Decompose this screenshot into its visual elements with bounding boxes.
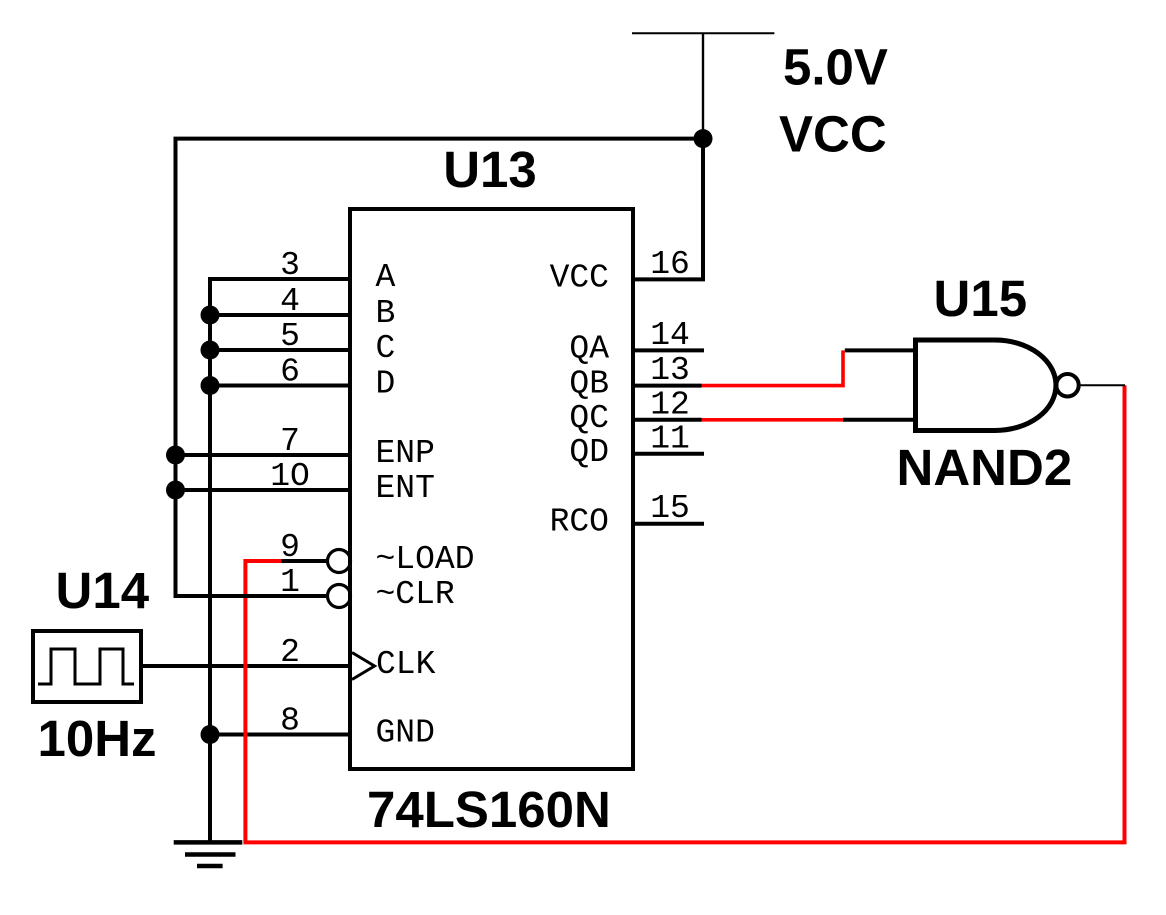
clock source U14 box — [33, 631, 141, 702]
node junction GND — [201, 725, 220, 744]
wire pin13 QB black stub — [633, 384, 702, 388]
wire pin11 QD stub — [633, 452, 704, 456]
node junction C — [201, 341, 220, 360]
svg-text:15: 15 — [650, 490, 690, 527]
svg-text:QA: QA — [569, 330, 609, 367]
svg-text:A: A — [376, 259, 396, 296]
wire pin8 GND stub — [210, 733, 350, 737]
svg-text:1O: 1O — [270, 458, 310, 495]
svg-text:6: 6 — [280, 354, 300, 391]
svg-text:3: 3 — [280, 247, 300, 284]
svg-text:5.0V: 5.0V — [783, 38, 888, 95]
pin1 inversion bubble ~CLR — [328, 585, 351, 608]
svg-text:C: C — [376, 330, 396, 367]
ground symbol — [174, 842, 243, 866]
node junction ENT — [166, 481, 185, 500]
svg-text:ENT: ENT — [376, 470, 435, 507]
svg-text:ENP: ENP — [376, 435, 435, 472]
svg-text:11: 11 — [650, 420, 690, 457]
svg-text:VCC: VCC — [779, 105, 887, 162]
svg-text:GND: GND — [376, 715, 435, 752]
svg-text:74LS160N: 74LS160N — [367, 781, 611, 838]
svg-text:U14: U14 — [56, 562, 150, 619]
wire pin1 ~CLR stub — [174, 594, 329, 598]
wire pin2 CLK — [141, 664, 350, 668]
node junction D — [201, 376, 220, 395]
svg-text:QD: QD — [569, 434, 609, 471]
svg-text:14: 14 — [650, 317, 690, 354]
svg-text:2: 2 — [280, 634, 300, 671]
svg-text:13: 13 — [650, 352, 690, 389]
pin9 inversion bubble ~LOAD — [328, 550, 351, 573]
svg-text:1: 1 — [280, 564, 300, 601]
svg-text:CLK: CLK — [376, 646, 436, 683]
wire pin4 B stub — [210, 313, 350, 317]
svg-text:7: 7 — [280, 423, 300, 460]
IC U13 body — [350, 209, 633, 769]
svg-text:5: 5 — [280, 318, 300, 355]
power symbol VCC bar — [632, 32, 774, 34]
svg-text:12: 12 — [650, 386, 690, 423]
wire NAND input B black segment — [843, 418, 916, 422]
svg-text:D: D — [376, 366, 396, 403]
svg-text:16: 16 — [650, 246, 690, 283]
wire NAND output — [1079, 384, 1125, 386]
svg-text:RCO: RCO — [550, 504, 609, 541]
node VCC junction — [694, 129, 713, 148]
wire pin16 to VCC junction — [633, 139, 703, 280]
wire QB red to NAND input A — [702, 350, 844, 385]
clock source square wave — [38, 649, 134, 684]
svg-text:U13: U13 — [443, 141, 537, 198]
svg-text:~LOAD: ~LOAD — [376, 541, 475, 578]
wire GND rail: pin3 stub corner down to ground — [210, 279, 350, 842]
wire pin12 QC black stub — [633, 418, 702, 422]
wire pin15 RCO stub — [633, 522, 704, 526]
NAND gate output bubble — [1056, 374, 1078, 396]
svg-text:U15: U15 — [934, 270, 1028, 327]
wire pin14 QA stub — [633, 348, 704, 352]
svg-text:VCC: VCC — [550, 259, 609, 296]
NAND gate U15 body — [916, 340, 1056, 431]
svg-text:~CLR: ~CLR — [376, 576, 455, 613]
svg-text:B: B — [376, 295, 396, 332]
svg-text:9: 9 — [280, 529, 300, 566]
svg-text:10Hz: 10Hz — [38, 710, 157, 767]
wire QC red to NAND input B — [702, 418, 845, 422]
svg-text:QB: QB — [569, 366, 609, 403]
svg-text:QC: QC — [569, 400, 609, 437]
node junction ENP — [166, 446, 185, 465]
svg-text:8: 8 — [280, 703, 300, 740]
svg-text:NAND2: NAND2 — [897, 439, 1073, 496]
wire pin5 C stub — [210, 348, 350, 352]
wire NAND input A black segment — [845, 348, 916, 352]
node junction B — [201, 306, 220, 325]
wire pin9 black stub — [282, 559, 329, 563]
wire VCC rail: top horizontal, left vertical, pin1 stub — [176, 139, 704, 598]
svg-text:4: 4 — [280, 283, 300, 320]
wire pin7 ENP stub — [176, 453, 351, 457]
power symbol VCC stem — [702, 33, 704, 138]
wire pin6 D stub — [210, 384, 350, 388]
pin2 clock wedge — [352, 653, 375, 680]
wire pin10 ENT stub — [176, 488, 351, 492]
wire red net NAND output to ~LOAD — [245, 385, 1124, 842]
